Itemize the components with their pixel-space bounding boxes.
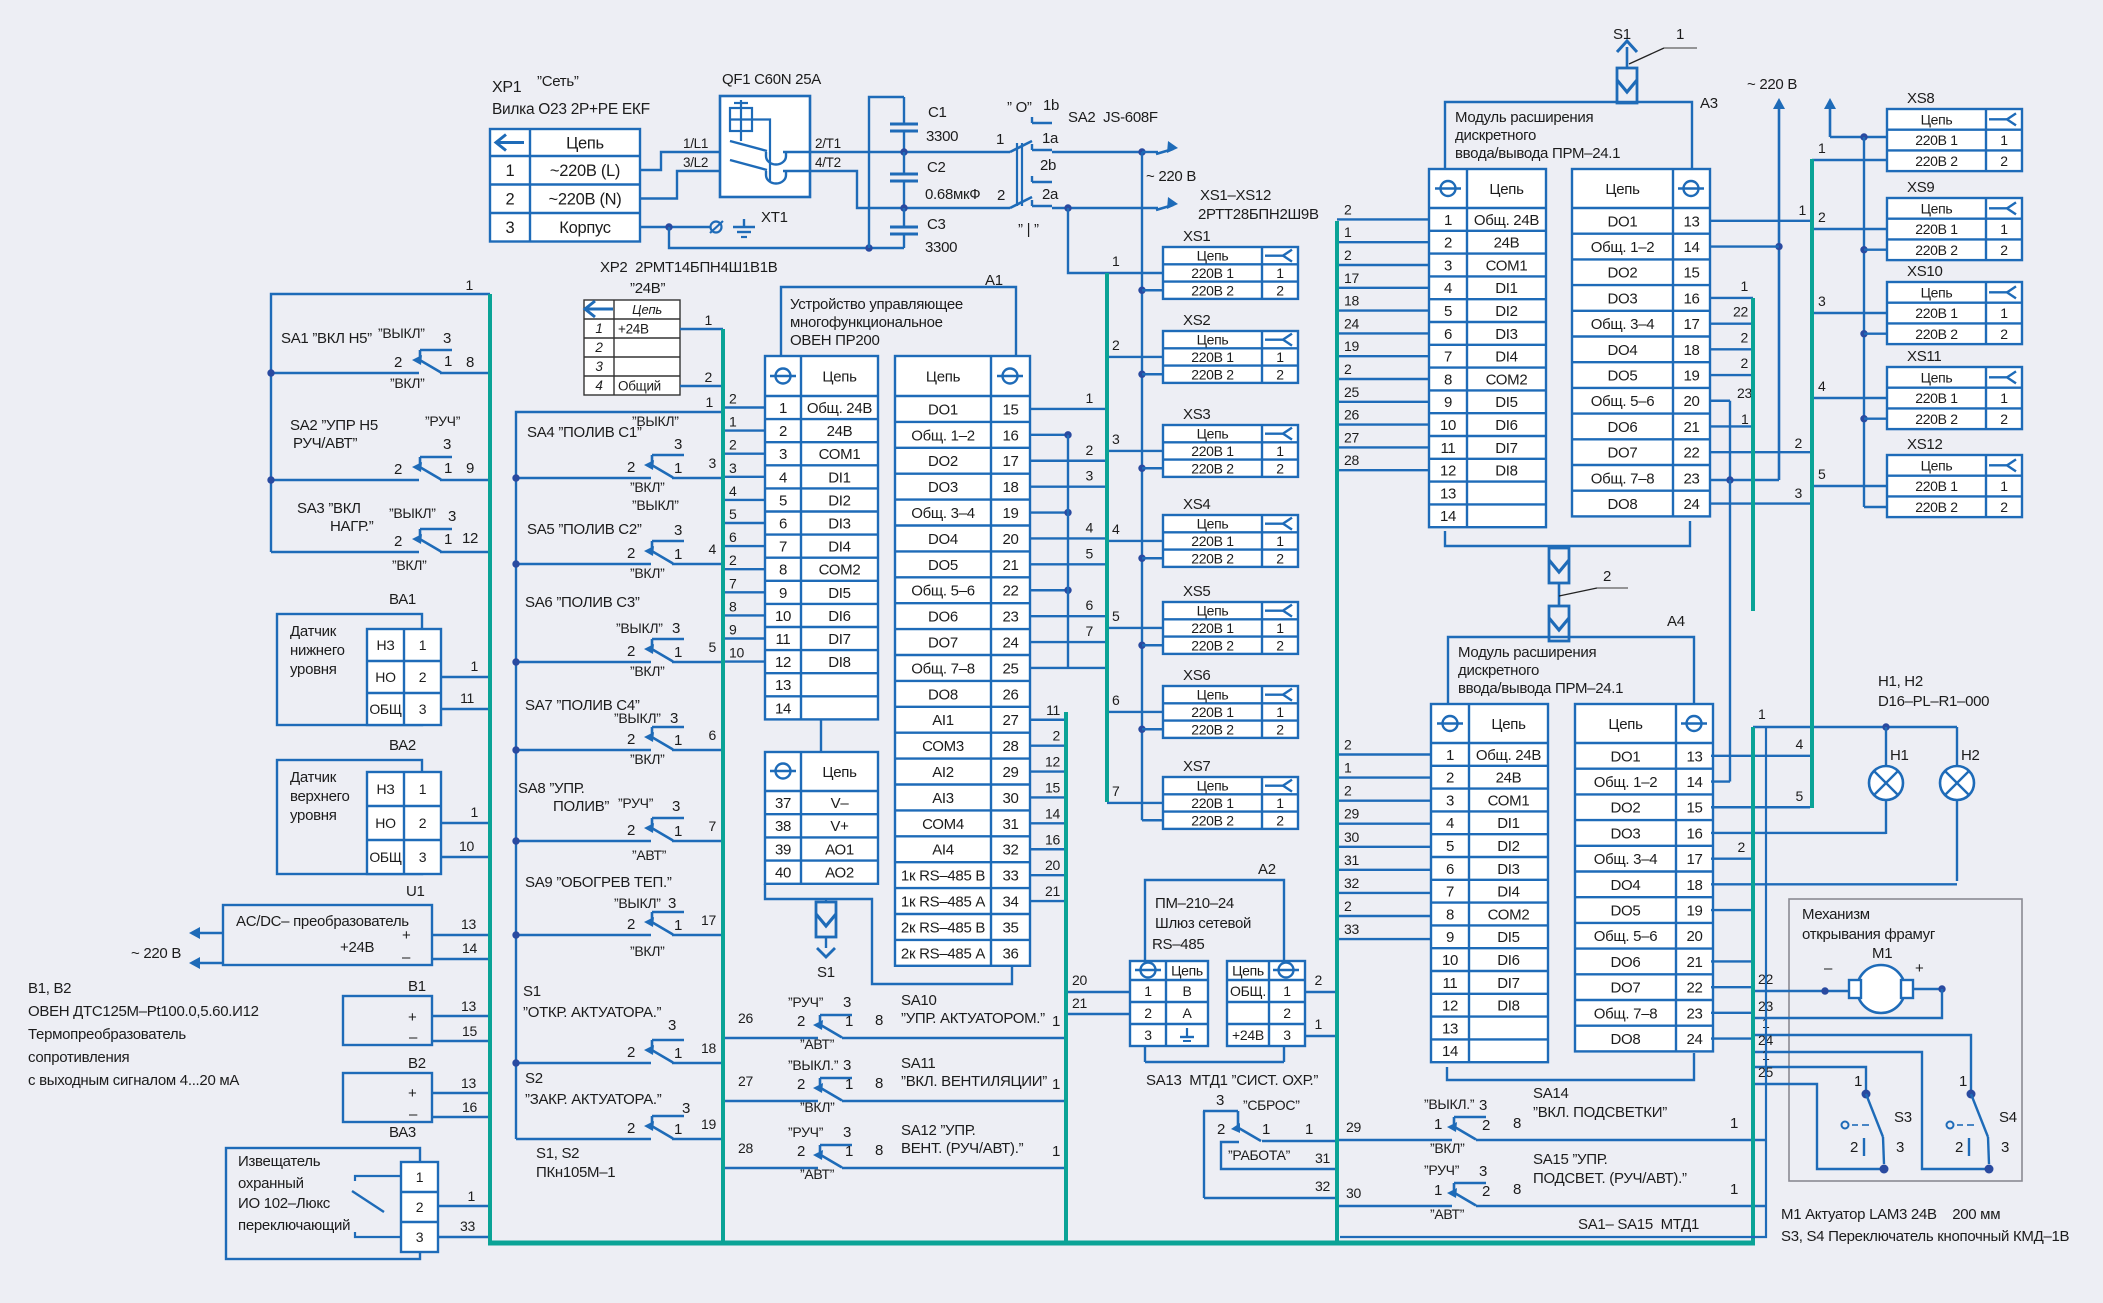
svg-text:12: 12 bbox=[1442, 998, 1458, 1015]
svg-text:19: 19 bbox=[1002, 505, 1018, 522]
svg-text:СОМ1: СОМ1 bbox=[1486, 257, 1528, 274]
svg-text:1: 1 bbox=[1086, 390, 1094, 406]
svg-text:2: 2 bbox=[729, 437, 737, 453]
svg-text:1: 1 bbox=[1262, 1121, 1270, 1138]
svg-text:С3: С3 bbox=[927, 216, 946, 233]
svg-text:1: 1 bbox=[1344, 760, 1352, 776]
wire SA2-2a to 220V feed with arrow bbox=[1052, 197, 1178, 212]
svg-text:13: 13 bbox=[1442, 1020, 1458, 1037]
svg-text:2: 2 bbox=[1344, 783, 1352, 799]
svg-text:33: 33 bbox=[1002, 868, 1018, 885]
svg-text:220В 1: 220В 1 bbox=[1915, 221, 1958, 237]
wire bundle A4 DO to M1 cable bbox=[1711, 910, 1753, 1039]
wire XP2-4 Общий bbox=[680, 369, 723, 386]
svg-text:7: 7 bbox=[729, 575, 737, 591]
svg-text:32: 32 bbox=[1315, 1178, 1330, 1194]
svg-text:SA8 ”УПР.: SA8 ”УПР. bbox=[518, 780, 584, 797]
svg-text:220В 1: 220В 1 bbox=[1915, 390, 1958, 406]
svg-text:DO3: DO3 bbox=[928, 479, 958, 496]
svg-text:S1, S2: S1, S2 bbox=[536, 1145, 579, 1162]
svg-text:QF1 С60N 25А: QF1 С60N 25А bbox=[722, 71, 821, 88]
svg-text:7: 7 bbox=[779, 539, 787, 556]
svg-text:16: 16 bbox=[1045, 831, 1060, 847]
svg-text:”ВКЛ”: ”ВКЛ” bbox=[630, 751, 665, 767]
svg-text:DI3: DI3 bbox=[1495, 326, 1517, 343]
svg-text:DO6: DO6 bbox=[928, 609, 958, 626]
svg-text:1: 1 bbox=[705, 312, 713, 328]
svg-text:В1: В1 bbox=[408, 978, 426, 995]
svg-text:5: 5 bbox=[1818, 466, 1826, 482]
wire XS8 220V-2 to cable top bbox=[1812, 140, 1887, 160]
pushbutton switch S3 bbox=[1842, 1073, 1912, 1174]
svg-text:3: 3 bbox=[506, 219, 515, 237]
svg-text:220В 2: 220В 2 bbox=[1915, 326, 1958, 342]
wire bundle A1 DI stub wires bbox=[723, 391, 765, 662]
switch SA5 bbox=[512, 497, 723, 581]
svg-text:Цепь: Цепь bbox=[1197, 332, 1229, 348]
svg-text:8: 8 bbox=[1513, 1115, 1521, 1132]
svg-text:3: 3 bbox=[674, 522, 682, 539]
svg-text:9: 9 bbox=[729, 622, 737, 638]
svg-text:SA14: SA14 bbox=[1533, 1085, 1569, 1102]
svg-text:АI3: АI3 bbox=[932, 790, 954, 807]
svg-text:ПМ–210–24: ПМ–210–24 bbox=[1155, 895, 1234, 912]
svg-text:Общ. 3–4: Общ. 3–4 bbox=[1591, 316, 1655, 333]
svg-text:16: 16 bbox=[1686, 825, 1702, 842]
svg-text:Цепь: Цепь bbox=[822, 368, 857, 385]
svg-text:SA5 ”ПОЛИВ С2”: SA5 ”ПОЛИВ С2” bbox=[527, 521, 642, 538]
svg-text:220В 2: 220В 2 bbox=[1191, 812, 1234, 828]
svg-text:8: 8 bbox=[1446, 906, 1454, 923]
svg-text:4: 4 bbox=[1444, 280, 1452, 297]
svg-text:220В 2: 220В 2 bbox=[1915, 153, 1958, 169]
svg-text:ХР1: ХР1 bbox=[492, 79, 522, 96]
svg-text:Общ. 1–2: Общ. 1–2 bbox=[1594, 774, 1658, 791]
svg-text:SA4 ”ПОЛИВ С1”: SA4 ”ПОЛИВ С1” bbox=[527, 424, 642, 441]
svg-text:НО: НО bbox=[375, 815, 396, 831]
svg-text:1: 1 bbox=[674, 917, 682, 934]
svg-text:Модуль расширения: Модуль расширения bbox=[1455, 109, 1593, 126]
svg-text:DI1: DI1 bbox=[1495, 280, 1517, 297]
svg-text:”ЗАКР. АКТУАТОРА.”: ”ЗАКР. АКТУАТОРА.” bbox=[525, 1091, 662, 1108]
svg-text:37: 37 bbox=[775, 795, 791, 812]
svg-text:SA15 ”УПР.: SA15 ”УПР. bbox=[1533, 1151, 1608, 1168]
svg-text:Цепь: Цепь bbox=[632, 302, 662, 317]
svg-text:А3: А3 bbox=[1700, 95, 1718, 112]
svg-text:ХS2: ХS2 bbox=[1183, 312, 1210, 329]
svg-text:1: 1 bbox=[466, 277, 474, 293]
wire A4 DO1 to lamp cable (4) bbox=[1711, 736, 1810, 756]
svg-text:СОМ1: СОМ1 bbox=[819, 446, 861, 463]
svg-text:+: + bbox=[1915, 960, 1924, 977]
svg-text:Цепь: Цепь bbox=[1197, 603, 1229, 619]
svg-text:30: 30 bbox=[1346, 1185, 1361, 1201]
svg-text:39: 39 bbox=[775, 841, 791, 858]
wire lamp common (1) bbox=[1753, 706, 1957, 731]
svg-text:Цепь: Цепь bbox=[1921, 284, 1953, 300]
circuit breaker QF1 C60N 25A bbox=[720, 71, 821, 197]
svg-text:”ВКЛ”: ”ВКЛ” bbox=[630, 479, 665, 495]
svg-text:1: 1 bbox=[1854, 1073, 1862, 1090]
svg-text:”УПР. АКТУАТОРОМ.”: ”УПР. АКТУАТОРОМ.” bbox=[901, 1010, 1045, 1027]
A2 right table power bbox=[1227, 961, 1305, 1046]
connector XS5 bbox=[1163, 583, 1298, 654]
svg-text:V–: V– bbox=[831, 795, 850, 812]
wire bundle A3 DI stubs from bus bbox=[1337, 201, 1429, 470]
svg-text:Корпус: Корпус bbox=[559, 219, 610, 237]
220V arrow feed 2 to XS8 bbox=[1824, 98, 1887, 141]
svg-text:1: 1 bbox=[1434, 1182, 1442, 1199]
svg-text:2: 2 bbox=[1603, 568, 1611, 585]
svg-text:25: 25 bbox=[1344, 384, 1359, 400]
svg-text:8: 8 bbox=[779, 562, 787, 579]
svg-text:17: 17 bbox=[1344, 270, 1359, 286]
svg-text:”24В”: ”24В” bbox=[630, 280, 665, 297]
svg-text:1: 1 bbox=[471, 804, 479, 820]
svg-text:+: + bbox=[402, 927, 411, 944]
svg-text:S1: S1 bbox=[523, 983, 541, 1000]
connector XS7 bbox=[1163, 758, 1298, 829]
svg-text:14: 14 bbox=[462, 940, 477, 956]
svg-text:2: 2 bbox=[797, 1076, 805, 1093]
svg-text:1: 1 bbox=[1741, 278, 1749, 294]
svg-text:2: 2 bbox=[1738, 839, 1746, 855]
svg-text:DO2: DO2 bbox=[1611, 800, 1641, 817]
switch SA11 ВКЛ. ВЕНТИЛЯЦИИ bbox=[723, 1055, 1065, 1115]
svg-text:S4: S4 bbox=[1999, 1109, 2017, 1126]
switch SA9 bbox=[512, 874, 723, 959]
wire A4 Общ1-2 from A3 common vertical bbox=[1711, 480, 1730, 782]
svg-text:12: 12 bbox=[775, 654, 791, 671]
svg-text:DI8: DI8 bbox=[1495, 463, 1517, 480]
svg-text:20: 20 bbox=[1045, 857, 1060, 873]
svg-text:2: 2 bbox=[1850, 1139, 1858, 1156]
svg-text:ХS1: ХS1 bbox=[1183, 228, 1210, 245]
svg-text:18: 18 bbox=[701, 1040, 716, 1056]
svg-text:4: 4 bbox=[1112, 521, 1120, 537]
svg-text:1: 1 bbox=[1730, 1115, 1738, 1132]
svg-text:2: 2 bbox=[1482, 1183, 1490, 1200]
svg-text:26: 26 bbox=[738, 1010, 753, 1026]
svg-text:23: 23 bbox=[1737, 385, 1752, 401]
svg-text:DI2: DI2 bbox=[828, 492, 850, 509]
svg-text:3300: 3300 bbox=[925, 239, 957, 256]
svg-text:”АВТ”: ”АВТ” bbox=[800, 1036, 835, 1052]
svg-text:СОМ2: СОМ2 bbox=[1486, 371, 1528, 388]
svg-text:2: 2 bbox=[627, 731, 635, 748]
svg-text:Н1, Н2: Н1, Н2 bbox=[1878, 673, 1923, 690]
svg-text:3: 3 bbox=[1479, 1097, 1487, 1114]
gateway A2 box bbox=[1145, 861, 1284, 1062]
switch column common bus wire bbox=[516, 394, 723, 1139]
svg-text:ВЕНТ. (РУЧ/АВТ).”: ВЕНТ. (РУЧ/АВТ).” bbox=[901, 1140, 1024, 1157]
svg-text:2: 2 bbox=[627, 916, 635, 933]
svg-text:1: 1 bbox=[1305, 1121, 1313, 1138]
svg-text:ХS7: ХS7 bbox=[1183, 758, 1210, 775]
svg-text:3: 3 bbox=[843, 1124, 851, 1141]
svg-text:2: 2 bbox=[1344, 201, 1352, 217]
svg-text:2: 2 bbox=[1276, 366, 1284, 382]
svg-text:27: 27 bbox=[738, 1073, 753, 1089]
svg-text:220В 1: 220В 1 bbox=[1191, 533, 1234, 549]
svg-text:НАГР.”: НАГР.” bbox=[330, 518, 374, 535]
wire XP1-3 Корпус to earth XT1 bbox=[640, 223, 904, 251]
svg-text:Цепь: Цепь bbox=[1197, 778, 1229, 794]
svg-text:2: 2 bbox=[627, 1044, 635, 1061]
svg-text:1: 1 bbox=[595, 321, 602, 336]
switch SA10 УПР. АКТУАТОРОМ bbox=[723, 992, 1065, 1052]
svg-text:6: 6 bbox=[779, 515, 787, 532]
svg-text:31: 31 bbox=[1315, 1150, 1330, 1166]
svg-text:6: 6 bbox=[729, 529, 737, 545]
svg-text:9: 9 bbox=[1446, 929, 1454, 946]
svg-text:33: 33 bbox=[1344, 921, 1359, 937]
svg-text:переключающий: переключающий bbox=[238, 1217, 350, 1234]
svg-text:7: 7 bbox=[1112, 783, 1120, 799]
A1 right terminal table pins 15-36 bbox=[895, 356, 1030, 966]
wire A1 RS485 A to A2 (21) bbox=[1066, 995, 1130, 1014]
svg-text:ВА2: ВА2 bbox=[389, 737, 416, 754]
A2 left table RS-485 bbox=[1130, 961, 1208, 1046]
svg-text:1: 1 bbox=[1276, 620, 1284, 636]
svg-text:+: + bbox=[408, 1085, 417, 1102]
cable screen line switch column bbox=[721, 329, 725, 1243]
svg-text:5: 5 bbox=[779, 492, 787, 509]
svg-text:1: 1 bbox=[2000, 221, 2008, 237]
svg-text:”ВКЛ”: ”ВКЛ” bbox=[800, 1099, 835, 1115]
svg-text:1: 1 bbox=[1276, 795, 1284, 811]
svg-text:ввода/вывода ПРМ–24.1: ввода/вывода ПРМ–24.1 bbox=[1458, 680, 1623, 697]
svg-text:3: 3 bbox=[1216, 1092, 1224, 1109]
svg-text:Цепь: Цепь bbox=[1197, 687, 1229, 703]
svg-text:2: 2 bbox=[1446, 770, 1454, 787]
svg-text:5: 5 bbox=[1796, 788, 1804, 804]
svg-text:2: 2 bbox=[1818, 209, 1826, 225]
svg-text:12: 12 bbox=[1440, 463, 1456, 480]
svg-text:31: 31 bbox=[1344, 852, 1359, 868]
svg-text:19: 19 bbox=[701, 1116, 716, 1132]
svg-text:3: 3 bbox=[668, 895, 676, 912]
svg-text:Цепь: Цепь bbox=[1197, 426, 1229, 442]
svg-text:2: 2 bbox=[419, 815, 427, 831]
svg-text:2: 2 bbox=[1276, 637, 1284, 653]
wire 220V feed 1 to XS cable bbox=[1068, 208, 1163, 273]
wire QF1 2/T1 output bbox=[810, 136, 1010, 152]
svg-text:Цепь: Цепь bbox=[1232, 963, 1264, 979]
svg-text:5: 5 bbox=[1112, 608, 1120, 624]
switch SA6 bbox=[512, 594, 723, 679]
cable screen line XS8-12 bbox=[1810, 159, 1814, 808]
A1 analog output table pins 37-40 bbox=[765, 719, 878, 884]
svg-text:2: 2 bbox=[797, 1013, 805, 1030]
svg-text:2: 2 bbox=[394, 533, 402, 550]
svg-text:Цепь: Цепь bbox=[1171, 963, 1203, 979]
svg-text:DO4: DO4 bbox=[1608, 342, 1638, 359]
svg-text:4: 4 bbox=[1796, 736, 1804, 752]
svg-text:1/L1: 1/L1 bbox=[683, 136, 708, 151]
svg-text:1: 1 bbox=[1676, 26, 1684, 43]
svg-text:DO1: DO1 bbox=[1611, 748, 1641, 765]
svg-text:SA3 ”ВКЛ: SA3 ”ВКЛ bbox=[297, 500, 361, 517]
svg-text:1: 1 bbox=[729, 414, 737, 430]
cable screen line A1 outputs bbox=[1064, 712, 1068, 1243]
svg-text:14: 14 bbox=[1686, 774, 1702, 791]
svg-text:2: 2 bbox=[416, 1199, 424, 1215]
svg-text:уровня: уровня bbox=[290, 661, 337, 678]
svg-text:Цепь: Цепь bbox=[1489, 181, 1524, 198]
svg-text:ОБЩ.: ОБЩ. bbox=[1230, 983, 1266, 999]
switch SA1 ВКЛ Н5 bbox=[267, 325, 488, 391]
svg-text:22: 22 bbox=[1733, 304, 1748, 320]
svg-text:верхнего: верхнего bbox=[290, 788, 350, 805]
svg-text:32: 32 bbox=[1002, 842, 1018, 859]
svg-text:АI1: АI1 bbox=[932, 712, 954, 729]
svg-text:1: 1 bbox=[2000, 390, 2008, 406]
svg-text:3: 3 bbox=[1896, 1139, 1904, 1156]
svg-text:SA11: SA11 bbox=[901, 1055, 935, 1072]
cable screen symbols below A3 with label 2 bbox=[1445, 521, 1690, 641]
svg-text:220В 1: 220В 1 bbox=[1191, 349, 1234, 365]
svg-text:15: 15 bbox=[1683, 265, 1699, 282]
svg-text:DO8: DO8 bbox=[928, 686, 958, 703]
svg-text:220В 2: 220В 2 bbox=[1191, 366, 1234, 382]
svg-text:13: 13 bbox=[461, 916, 476, 932]
svg-text:”АВТ”: ”АВТ” bbox=[800, 1166, 835, 1182]
svg-text:DI4: DI4 bbox=[1495, 349, 1517, 366]
svg-text:Общ. 1–2: Общ. 1–2 bbox=[1591, 239, 1655, 256]
svg-text:”ВКЛ”: ”ВКЛ” bbox=[630, 663, 665, 679]
svg-text:2: 2 bbox=[1482, 1117, 1490, 1134]
svg-text:3: 3 bbox=[1818, 293, 1826, 309]
svg-text:1: 1 bbox=[506, 162, 515, 180]
svg-text:Общ. 24В: Общ. 24В bbox=[1476, 747, 1542, 764]
svg-text:ХТ1: ХТ1 bbox=[761, 209, 788, 226]
svg-text:1: 1 bbox=[416, 1169, 424, 1185]
svg-text:2: 2 bbox=[1086, 442, 1094, 458]
switch SA12 УПР. ВЕНТ bbox=[723, 1122, 1065, 1182]
svg-text:Общ. 7–8: Общ. 7–8 bbox=[1594, 1005, 1658, 1022]
svg-text:30: 30 bbox=[1344, 829, 1359, 845]
svg-text:дискретного: дискретного bbox=[1455, 127, 1536, 144]
svg-text:Н1: Н1 bbox=[1890, 747, 1909, 764]
svg-text:”ОТКР. АКТУАТОРА.”: ”ОТКР. АКТУАТОРА.” bbox=[523, 1004, 662, 1021]
svg-text:ХS11: ХS11 bbox=[1907, 348, 1941, 365]
svg-text:ХS4: ХS4 bbox=[1183, 496, 1210, 513]
svg-text:2: 2 bbox=[2000, 326, 2008, 342]
svg-text:14: 14 bbox=[1045, 805, 1060, 821]
svg-text:2: 2 bbox=[506, 191, 515, 209]
svg-text:29: 29 bbox=[1346, 1119, 1361, 1135]
svg-text:6: 6 bbox=[1444, 326, 1452, 343]
svg-text:220В 1: 220В 1 bbox=[1915, 132, 1958, 148]
svg-text:СОМ4: СОМ4 bbox=[922, 816, 964, 833]
svg-text:24В: 24В bbox=[827, 423, 853, 440]
svg-text:ОВЕН ДТС125М–Рt100.0,5.60.И12: ОВЕН ДТС125М–Рt100.0,5.60.И12 bbox=[28, 1003, 259, 1020]
svg-text:~220В (N): ~220В (N) bbox=[549, 191, 622, 209]
svg-text:18: 18 bbox=[1344, 293, 1359, 309]
svg-text:3: 3 bbox=[682, 1100, 690, 1117]
svg-text:27: 27 bbox=[1344, 429, 1359, 445]
svg-text:20: 20 bbox=[1683, 393, 1699, 410]
svg-text:”РУЧ”: ”РУЧ” bbox=[788, 994, 824, 1010]
svg-text:29: 29 bbox=[1002, 764, 1018, 781]
svg-text:Цепь: Цепь bbox=[926, 368, 961, 385]
svg-text:220В 1: 220В 1 bbox=[1191, 795, 1234, 811]
svg-text:–: – bbox=[409, 1106, 418, 1123]
svg-text:3: 3 bbox=[1144, 1027, 1152, 1043]
svg-text:28: 28 bbox=[1344, 452, 1359, 468]
svg-text:DO1: DO1 bbox=[928, 401, 958, 418]
svg-text:3: 3 bbox=[1283, 1027, 1291, 1043]
svg-text:18: 18 bbox=[1683, 342, 1699, 359]
svg-text:ХР2 2РМТ14БПН4Ш1В1В: ХР2 2РМТ14БПН4Ш1В1В bbox=[600, 259, 778, 276]
svg-text:ОБЩ: ОБЩ bbox=[369, 701, 401, 717]
svg-text:охранный: охранный bbox=[238, 1175, 304, 1192]
note M1 S3 S4 types bbox=[1781, 1206, 2070, 1245]
svg-text:4: 4 bbox=[595, 378, 602, 393]
svg-text:5: 5 bbox=[729, 506, 737, 522]
svg-text:ХS5: ХS5 bbox=[1183, 583, 1210, 600]
svg-text:2: 2 bbox=[627, 545, 635, 562]
svg-text:2: 2 bbox=[594, 340, 603, 355]
svg-text:S1: S1 bbox=[1613, 26, 1631, 43]
svg-text:21: 21 bbox=[1002, 557, 1018, 574]
svg-text:2/Т1: 2/Т1 bbox=[815, 136, 841, 151]
svg-text:2: 2 bbox=[627, 822, 635, 839]
svg-text:3: 3 bbox=[1086, 468, 1094, 484]
switch SA8 bbox=[512, 780, 723, 863]
svg-text:НО: НО bbox=[375, 669, 396, 685]
actuator mechanism box bbox=[1789, 899, 2022, 1181]
svg-text:DI1: DI1 bbox=[1497, 815, 1519, 832]
svg-text:+24В: +24В bbox=[618, 321, 649, 336]
svg-text:RS–485: RS–485 bbox=[1152, 936, 1204, 953]
220V arrow feed 1 (pin23 ОБЩ) bbox=[1710, 98, 1785, 484]
svg-text:”ВЫКЛ.”: ”ВЫКЛ.” bbox=[788, 1057, 839, 1073]
svg-text:1: 1 bbox=[845, 1013, 853, 1030]
svg-text:1к RS–485 А: 1к RS–485 А bbox=[901, 893, 985, 910]
svg-text:Устройство управляющее: Устройство управляющее bbox=[790, 296, 963, 313]
svg-text:Цепь: Цепь bbox=[566, 134, 604, 152]
connector XS2 bbox=[1163, 312, 1298, 383]
svg-text:1: 1 bbox=[1276, 704, 1284, 720]
svg-text:”РУЧ”: ”РУЧ” bbox=[1424, 1162, 1460, 1178]
svg-text:DO4: DO4 bbox=[1611, 877, 1641, 894]
svg-text:ХS3: ХS3 bbox=[1183, 406, 1210, 423]
svg-text:SA10: SA10 bbox=[901, 992, 937, 1009]
svg-text:2: 2 bbox=[1315, 972, 1323, 988]
svg-text:220В 1: 220В 1 bbox=[1915, 478, 1958, 494]
cable screen line A3-A4 left bus bbox=[1335, 221, 1339, 1243]
svg-text:1: 1 bbox=[1741, 411, 1749, 427]
svg-text:5: 5 bbox=[1444, 303, 1452, 320]
svg-text:Общ. 7–8: Общ. 7–8 bbox=[1591, 470, 1655, 487]
note B1 B2 thermal sensor text bbox=[28, 980, 259, 1089]
svg-text:1: 1 bbox=[1276, 265, 1284, 281]
svg-text:DO7: DO7 bbox=[1608, 445, 1638, 462]
svg-text:ПКн105М–1: ПКн105М–1 bbox=[536, 1164, 615, 1181]
svg-text:8: 8 bbox=[466, 354, 474, 371]
svg-text:Модуль расширения: Модуль расширения bbox=[1458, 644, 1596, 661]
svg-text:1: 1 bbox=[845, 1076, 853, 1093]
svg-text:1: 1 bbox=[1052, 1013, 1060, 1030]
svg-text:11: 11 bbox=[460, 690, 474, 706]
svg-text:В2: В2 bbox=[408, 1055, 426, 1072]
svg-text:4: 4 bbox=[1818, 378, 1826, 394]
svg-text:40: 40 bbox=[775, 865, 791, 882]
svg-text:10: 10 bbox=[1440, 417, 1456, 434]
svg-text:Цепь: Цепь bbox=[822, 764, 857, 781]
